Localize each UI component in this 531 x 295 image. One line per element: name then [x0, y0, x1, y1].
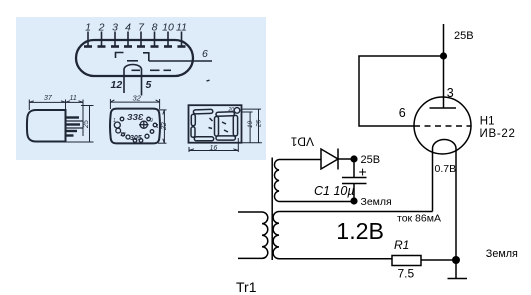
bottom view pin number markings: [113, 112, 162, 142]
tube anode plate: [430, 107, 457, 109]
node 25V: [350, 155, 357, 162]
svg-text:12: 12: [120, 132, 126, 138]
svg-text:2: 2: [98, 22, 105, 34]
svg-text:4: 4: [125, 22, 131, 34]
svg-text:9: 9: [150, 118, 153, 124]
right digit segments: [215, 112, 238, 140]
left digit segments: [191, 109, 214, 141]
tube H1 envelope: [414, 97, 471, 154]
display view outline: [189, 105, 242, 143]
svg-text:R1: R1: [394, 238, 409, 252]
pin 10: [162, 22, 174, 47]
svg-text:6: 6: [202, 48, 208, 60]
transformer Tr1 core: [271, 158, 273, 261]
svg-text:3: 3: [447, 86, 454, 100]
svg-text:6: 6: [399, 106, 406, 120]
svg-text:Земля: Земля: [361, 196, 392, 208]
pin 1: [84, 22, 92, 47]
grid electrode marks: [116, 53, 149, 62]
capacitor C1: [342, 159, 367, 201]
tube outline (pinout top view): [76, 40, 193, 76]
wire anode lead to 25V rail: [443, 24, 445, 108]
svg-text:ток 86мА: ток 86мА: [397, 213, 441, 225]
wire grid-anode loop: [359, 56, 444, 126]
pin 3: [111, 22, 119, 47]
svg-text:25В: 25В: [454, 30, 474, 42]
tube filament heater: [433, 139, 457, 152]
svg-text:1: 1: [113, 118, 116, 124]
svg-text:ЗЗƐ: ЗЗƐ: [127, 112, 144, 122]
bottom view outline: [110, 109, 160, 144]
wire R1 to junction: [421, 259, 456, 261]
pin 11: [176, 22, 187, 47]
dimension 11: [66, 95, 84, 136]
wire filament right leg to ground: [455, 151, 457, 279]
svg-text:11: 11: [70, 95, 77, 102]
filament arch, pins 12 and 5: [124, 65, 171, 96]
bottom view pin circles: [114, 117, 157, 142]
dimension 32: [110, 94, 159, 110]
pin 8: [151, 22, 159, 47]
junction dot anode/grid loop: [440, 52, 447, 59]
svg-text:VD1: VD1: [290, 135, 314, 149]
bottom view key circle: [139, 121, 149, 128]
dimension 25: [66, 106, 94, 143]
svg-text:19: 19: [247, 120, 254, 128]
svg-text:12: 12: [111, 79, 123, 91]
display right dimensions: [242, 109, 263, 143]
transformer primary winding: [238, 212, 268, 258]
side view body: [27, 110, 66, 142]
svg-text:8: 8: [152, 22, 158, 34]
wire filament left leg: [432, 152, 434, 212]
svg-text:32: 32: [133, 94, 142, 103]
decimal point: [234, 108, 240, 114]
svg-text:1.2В: 1.2В: [336, 218, 384, 244]
dimension 22: [158, 110, 168, 143]
svg-text:Tr1: Tr1: [236, 279, 257, 295]
svg-text:22: 22: [161, 122, 168, 131]
pin 4: [124, 22, 132, 47]
ground: [448, 278, 468, 280]
node Земля (capacitor ground): [350, 197, 357, 204]
svg-text:+: +: [359, 164, 367, 180]
svg-text:1: 1: [85, 22, 91, 34]
svg-text:20: 20: [228, 107, 235, 113]
svg-text:C1 10µ: C1 10µ: [314, 184, 355, 198]
svg-text:10: 10: [162, 22, 174, 34]
svg-text:37: 37: [44, 95, 53, 102]
svg-text:ИВ-22: ИВ-22: [480, 128, 516, 140]
dimension 37: [29, 95, 83, 110]
diode VD1: [321, 149, 354, 170]
svg-text:25: 25: [83, 120, 90, 129]
tube grid (dashed): [414, 125, 471, 127]
transformer secondary winding 1.2V: [273, 212, 432, 259]
pin 7: [137, 22, 145, 47]
svg-text:3: 3: [112, 22, 118, 34]
side view pins: [66, 118, 81, 136]
svg-text:25: 25: [255, 119, 262, 128]
junction node: [452, 256, 460, 264]
pin 2: [98, 22, 106, 47]
resistor R1: [392, 256, 421, 266]
svg-text:0.7В: 0.7В: [435, 163, 457, 175]
display bottom dimension 16: [189, 138, 238, 152]
svg-text:7.5: 7.5: [398, 267, 415, 281]
svg-text:11: 11: [176, 22, 187, 34]
svg-text:16: 16: [210, 145, 218, 152]
svg-text:5: 5: [146, 79, 152, 91]
svg-text:Н1: Н1: [480, 115, 495, 127]
scan speck: [207, 79, 210, 82]
datasheet scan panel: [16, 17, 266, 160]
pin 6 lead: [149, 48, 212, 61]
svg-text:Земля: Земля: [486, 248, 518, 260]
svg-text:305: 305: [130, 135, 142, 142]
transformer secondary winding 25V: [274, 160, 354, 202]
